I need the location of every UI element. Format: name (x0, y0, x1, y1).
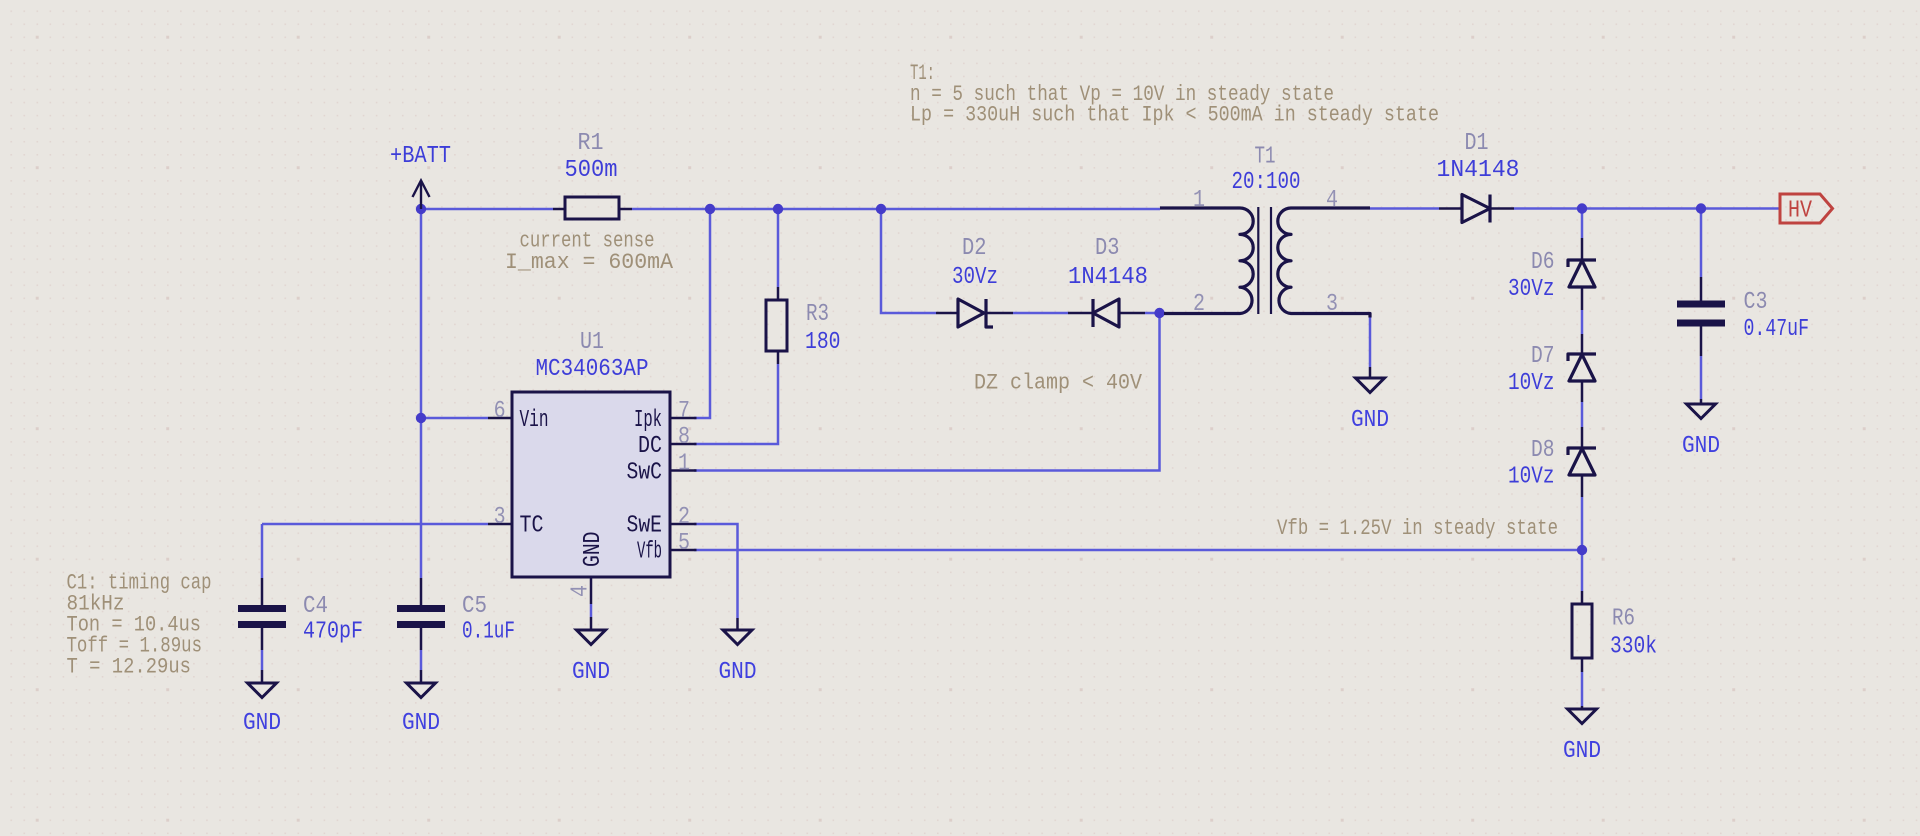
svg-text:2: 2 (678, 504, 690, 531)
svg-text:4: 4 (568, 585, 595, 597)
svg-text:GND: GND (719, 659, 757, 686)
svg-text:C3: C3 (1744, 289, 1768, 316)
svg-text:1N4148: 1N4148 (1437, 157, 1520, 184)
svg-text:1: 1 (678, 451, 690, 478)
svg-text:R3: R3 (806, 301, 829, 328)
svg-text:30Vz: 30Vz (952, 264, 998, 291)
svg-text:10Vz: 10Vz (1508, 370, 1555, 397)
svg-text:U1: U1 (580, 329, 604, 356)
svg-text:6: 6 (494, 398, 506, 425)
svg-text:I_max = 600mA: I_max = 600mA (505, 250, 674, 275)
svg-text:330k: 330k (1610, 634, 1657, 661)
svg-text:MC34063AP: MC34063AP (536, 356, 649, 383)
svg-text:3: 3 (1326, 291, 1338, 318)
svg-text:D6: D6 (1531, 249, 1555, 276)
svg-text:470pF: 470pF (303, 619, 363, 646)
svg-text:HV: HV (1788, 198, 1812, 225)
svg-text:D1: D1 (1465, 130, 1489, 157)
svg-text:Ipk: Ipk (634, 407, 662, 434)
svg-text:Vin: Vin (520, 407, 549, 434)
svg-text:GND: GND (1351, 407, 1389, 434)
svg-text:C4: C4 (303, 593, 328, 620)
svg-text:20:100: 20:100 (1232, 169, 1301, 196)
svg-text:DZ clamp < 40V: DZ clamp < 40V (974, 371, 1143, 396)
svg-text:Lp = 330uH such that Ipk < 500: Lp = 330uH such that Ipk < 500mA in stea… (910, 103, 1439, 128)
svg-text:1N4148: 1N4148 (1068, 264, 1148, 291)
svg-text:R6: R6 (1612, 606, 1635, 633)
svg-text:GND: GND (572, 659, 610, 686)
svg-text:500m: 500m (565, 157, 618, 184)
svg-text:2: 2 (1193, 291, 1205, 318)
svg-text:DC: DC (638, 433, 662, 460)
svg-text:Vfb = 1.25V in steady state: Vfb = 1.25V in steady state (1277, 516, 1558, 541)
svg-text:0.1uF: 0.1uF (462, 619, 515, 646)
svg-text:T1: T1 (1255, 144, 1276, 171)
svg-text:SwC: SwC (627, 460, 663, 487)
svg-text:D3: D3 (1095, 235, 1120, 262)
svg-text:GND: GND (1563, 738, 1601, 765)
svg-text:8: 8 (678, 424, 690, 451)
svg-text:TC: TC (520, 513, 544, 540)
svg-text:7: 7 (678, 398, 690, 425)
svg-text:SwE: SwE (627, 513, 663, 540)
svg-text:D2: D2 (962, 235, 987, 262)
svg-text:GND: GND (1682, 433, 1720, 460)
svg-text:Vfb: Vfb (637, 539, 662, 566)
svg-text:0.47uF: 0.47uF (1744, 316, 1810, 343)
svg-text:GND: GND (243, 710, 281, 737)
svg-text:1: 1 (1193, 187, 1205, 214)
svg-text:+BATT: +BATT (390, 143, 451, 170)
svg-text:GND: GND (402, 710, 440, 737)
svg-text:T = 12.29us: T = 12.29us (67, 655, 192, 680)
svg-text:C5: C5 (462, 593, 487, 620)
svg-text:4: 4 (1326, 187, 1338, 214)
svg-text:180: 180 (805, 329, 841, 356)
svg-text:D7: D7 (1531, 343, 1555, 370)
svg-text:10Vz: 10Vz (1508, 464, 1555, 491)
svg-text:5: 5 (678, 530, 690, 557)
svg-text:30Vz: 30Vz (1508, 276, 1555, 303)
svg-text:GND: GND (580, 532, 607, 568)
svg-text:R1: R1 (578, 130, 604, 157)
svg-text:3: 3 (494, 504, 506, 531)
svg-text:D8: D8 (1531, 437, 1555, 464)
